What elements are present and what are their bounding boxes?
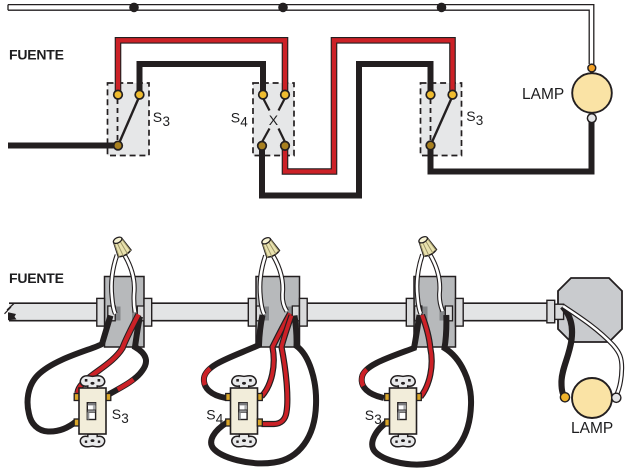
svg-text:LAMP: LAMP bbox=[522, 86, 564, 103]
svg-text:S: S bbox=[466, 108, 475, 124]
svg-text:S: S bbox=[112, 406, 121, 422]
svg-text:3: 3 bbox=[121, 411, 129, 426]
svg-text:3: 3 bbox=[374, 412, 382, 427]
svg-text:FUENTE: FUENTE bbox=[9, 270, 64, 286]
svg-text:4: 4 bbox=[216, 412, 224, 427]
svg-text:3: 3 bbox=[163, 114, 171, 129]
svg-text:S: S bbox=[153, 109, 162, 125]
svg-text:LAMP: LAMP bbox=[571, 420, 613, 437]
svg-text:S: S bbox=[365, 407, 374, 423]
svg-text:X: X bbox=[269, 112, 279, 128]
svg-text:S: S bbox=[206, 407, 215, 423]
svg-text:S: S bbox=[231, 110, 240, 126]
svg-text:4: 4 bbox=[240, 115, 248, 130]
svg-text:3: 3 bbox=[476, 113, 484, 128]
svg-text:FUENTE: FUENTE bbox=[9, 47, 64, 63]
